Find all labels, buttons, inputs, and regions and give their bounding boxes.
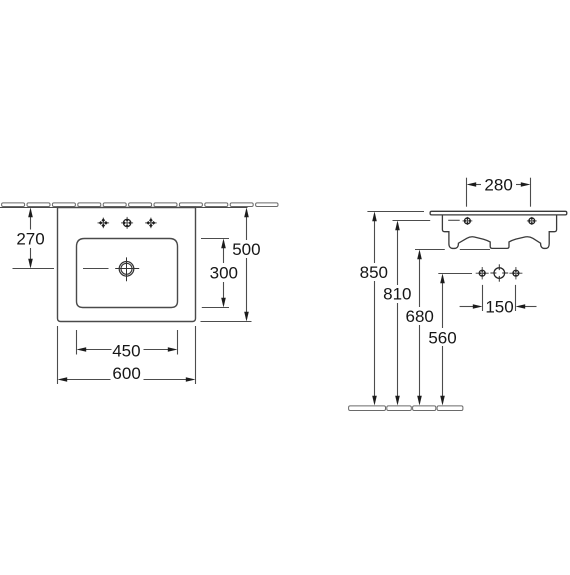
- dim line 810: [397, 223, 399, 404]
- basin body and under profile: [442, 215, 556, 248]
- svg-text:560: 560: [428, 328, 456, 347]
- drain centerline: [13, 268, 55, 270]
- 850 extension line: [367, 211, 424, 213]
- dimension 500: [201, 210, 252, 322]
- wall tiles (left view): [2, 203, 278, 207]
- faucet hole symbol middle (circle + inward wedges + ticks): [121, 217, 133, 229]
- floor tiles: [349, 406, 463, 411]
- 560 extension line: [438, 273, 472, 275]
- svg-text:450: 450: [112, 342, 140, 361]
- svg-text:680: 680: [406, 307, 434, 326]
- 500 bottom extension line: [201, 321, 252, 323]
- slot symbol left: [463, 217, 473, 225]
- svg-text:810: 810: [383, 285, 411, 304]
- drain crosshair: [115, 268, 139, 270]
- slot symbol right: [527, 217, 537, 225]
- bowl bottom extension: [202, 307, 229, 309]
- dimension 150: [460, 306, 537, 308]
- bowl top extension: [201, 238, 229, 240]
- dim line 680: [419, 252, 421, 404]
- svg-text:850: 850: [360, 263, 388, 282]
- dimension 300: [201, 239, 229, 308]
- basin outer rect (top view): [58, 208, 196, 322]
- svg-text:150: 150: [485, 298, 513, 317]
- dimension 270: [30, 210, 32, 267]
- 810 extension line: [393, 220, 431, 222]
- dimension 280: [467, 178, 531, 207]
- bowl inner rounded rect: [77, 239, 178, 308]
- apron dash: [448, 219, 460, 221]
- dimension 600: [58, 326, 196, 384]
- faucet hole symbol right (4 diamond petals + cross ticks): [145, 218, 157, 229]
- rim bar (side view top): [430, 211, 567, 215]
- wall face line: [0, 207, 248, 209]
- svg-text:280: 280: [484, 176, 512, 195]
- svg-text:500: 500: [232, 240, 260, 259]
- dimension 450: [77, 330, 178, 355]
- dim line 560: [442, 276, 444, 404]
- mounting hole small left: [476, 267, 489, 279]
- dim line 850: [374, 214, 376, 404]
- 680 extension line: [415, 249, 445, 251]
- hole extension verticals: [482, 285, 484, 311]
- svg-text:300: 300: [210, 263, 238, 282]
- svg-text:270: 270: [16, 230, 44, 249]
- faucet hole symbol left (4 diamond petals + cross ticks): [98, 218, 110, 229]
- mounting hole big middle: [490, 264, 508, 281]
- svg-text:600: 600: [112, 364, 140, 383]
- mounting hole small right: [509, 267, 522, 279]
- drain symbol circles: [119, 262, 134, 277]
